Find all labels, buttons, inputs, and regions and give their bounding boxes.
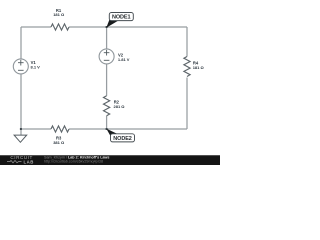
wire middle lower bbox=[106, 116, 108, 129]
wire top-left segment bbox=[21, 26, 51, 28]
wire right lower bbox=[186, 78, 188, 130]
svg-text:NODE1: NODE1 bbox=[112, 15, 130, 21]
wire ground stub bbox=[20, 129, 22, 135]
wire left lower bbox=[20, 74, 22, 129]
wire right upper bbox=[186, 27, 188, 57]
svg-text:381 Ω: 381 Ω bbox=[53, 140, 65, 145]
junction dot ground node bbox=[20, 128, 22, 130]
svg-text:1.81 V: 1.81 V bbox=[118, 57, 130, 62]
wire top-right segment bbox=[69, 26, 187, 28]
svg-text:281 Ω: 281 Ω bbox=[114, 104, 126, 109]
svg-text:NODE2: NODE2 bbox=[113, 136, 131, 142]
node NODE1 label bbox=[106, 13, 133, 28]
svg-text:181 Ω: 181 Ω bbox=[53, 12, 65, 17]
junction dot node2 bbox=[106, 128, 108, 130]
footer CircuitLab logo bbox=[7, 155, 34, 164]
junction dot node1 bbox=[106, 26, 108, 28]
node NODE2 label bbox=[106, 129, 134, 143]
svg-text:http://circuitlab.com/c6kv29mq: http://circuitlab.com/c6kv29mq4pr38 bbox=[44, 160, 103, 164]
footer bar bbox=[0, 155, 220, 165]
svg-text:LAB: LAB bbox=[24, 159, 34, 164]
resistor R2 bbox=[104, 96, 126, 116]
wire left upper bbox=[20, 27, 22, 59]
wire bottom-left segment bbox=[21, 128, 51, 130]
voltage source V1 bbox=[13, 59, 40, 74]
wire bottom-right segment bbox=[69, 128, 187, 130]
resistor R1 bbox=[51, 8, 69, 30]
resistor R4 bbox=[184, 57, 205, 77]
resistor R3 bbox=[51, 126, 69, 145]
voltage source V2 bbox=[99, 49, 130, 64]
wire middle upper bbox=[106, 27, 108, 49]
svg-text:181 Ω: 181 Ω bbox=[193, 65, 205, 70]
svg-text:8.1 V: 8.1 V bbox=[31, 65, 41, 70]
ground bbox=[14, 135, 27, 142]
wire middle mid bbox=[106, 64, 108, 96]
